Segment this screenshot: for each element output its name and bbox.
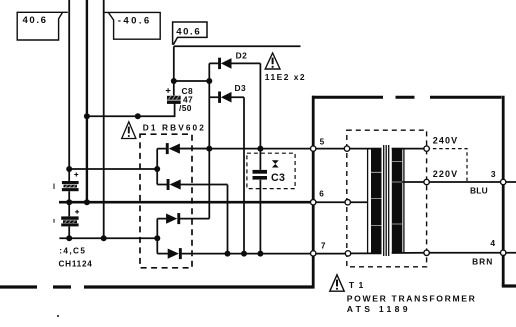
wire 240V stub [392,148,427,150]
wire pin4 output BRN [427,252,516,254]
svg-text::4,C5: :4,C5 [59,247,86,256]
wire pin6 stub [313,201,367,203]
svg-text:C3: C3 [271,172,285,184]
transformer T1 windings and core [368,145,404,256]
wire lower AC to bridge lower pair [59,237,157,239]
wire DC output to pin5 [180,148,347,150]
diode D3 [209,92,244,103]
wire D3 anode drop [243,97,245,253]
node junction dot [206,78,212,84]
wire DC output bottom to pin7 [182,253,348,255]
pin 5 terminal [344,146,349,151]
wire AC input to bridge top [69,168,157,170]
shield feedthrough pin4 [501,250,506,255]
wire AC input to bridge bottom (thick) [59,201,313,204]
wire secondary bottom stub [392,252,427,254]
node junction dot [225,251,231,257]
shield box top edge [312,96,502,99]
label C3 polarity glyph [272,160,279,167]
svg-text:6: 6 [319,190,324,199]
transformer T1 dashed box [347,130,427,267]
node junction dot [154,235,160,241]
node junction dot [241,251,247,257]
node junction dot [206,146,212,152]
wire pin5 stub [347,148,382,150]
shield box bottom-left dashed [0,285,315,288]
svg-text:CH1124: CH1124 [59,259,93,268]
bridge rectifier D1 dashed box [140,134,192,268]
svg-text:7: 7 [321,242,326,251]
node junction dot [66,199,72,205]
wire pin3 output BLU [427,181,516,183]
wire C8 bottom lead [87,103,175,116]
node junction dot [135,113,141,119]
svg-text:11E2 x2: 11E2 x2 [265,72,306,82]
svg-text:BRN: BRN [472,256,493,266]
wire 220V tap [402,181,426,183]
shield feedthrough pin7 [311,251,316,256]
wire vertical bus right [103,0,105,238]
diode D1c [157,213,209,224]
wire pin7 stub [348,252,382,254]
shield feedthrough pin6 [311,200,316,205]
node -40.6 voltage flag [105,12,161,39]
wire diode cathodes vertical [208,63,210,218]
pin 240V terminal [424,146,429,151]
shield box left edge [312,96,315,289]
wire diode B anode drop [227,185,229,254]
diode D1d [157,248,181,259]
warning triangle D1 [122,122,136,139]
svg-text:5: 5 [320,138,325,147]
shield feedthrough pin5 [311,146,316,151]
wire D2 anode drop [259,63,261,148]
node 40.6 voltage flag [17,12,68,40]
node junction dot [101,235,107,241]
diode D1a [157,143,209,154]
wire bridge upper-left vertical [156,149,158,185]
wire vertical bus middle [86,0,88,202]
wire 240V alternate dashed [427,149,467,182]
warning triangle T1 [330,275,344,291]
node junction dot [257,251,263,257]
node junction dot [84,199,90,205]
capacitor C3 [253,149,268,254]
svg-text:D1 RBV602: D1 RBV602 [143,122,206,132]
diode D1b [157,179,227,190]
capacitor C3 dashed box [247,153,295,188]
svg-text:POWER TRANSFORMER: POWER TRANSFORMER [347,293,477,303]
node junction dot [257,146,263,152]
svg-text:T 1: T 1 [349,280,364,290]
speck [57,315,59,317]
svg-text:220V: 220V [433,169,458,179]
node junction dot [66,235,72,241]
shield feedthrough pin3 [501,179,506,184]
pin 4 terminal [424,250,429,255]
svg-text:BLU: BLU [470,186,488,196]
diode D2 [209,58,260,69]
wire vertical bus left [68,0,70,169]
node junction dot [84,113,90,119]
svg-text:-40.6: -40.6 [118,15,152,26]
svg-text:4: 4 [490,238,495,248]
wire top horizontal from 40.6 flag [174,45,301,47]
svg-text:40.6: 40.6 [23,15,48,26]
node junction dot [66,166,72,172]
svg-text:D2: D2 [236,50,248,60]
node 40.6 voltage flag (rectifier input) [173,22,207,45]
pin 7 terminal [345,251,350,256]
shield box bottom-right stub [502,284,516,287]
node junction dot [154,166,160,172]
svg-text:D3: D3 [235,83,247,93]
wire vertical from 40.6 flag to C8 [173,46,175,95]
svg-text:ATS 1189: ATS 1189 [347,304,411,314]
wire y81 to diode junction [174,80,210,82]
pin 220V terminal [424,179,429,184]
wire bridge lower-left vertical [156,219,158,254]
svg-text:40.6: 40.6 [176,26,201,37]
capacitor C5 [54,202,79,238]
node junction dot [171,78,177,84]
capacitor C8 [166,88,181,104]
warning triangle 11E2 [265,53,280,69]
label C4,C5 CH1124 [59,247,93,269]
svg-text:240V: 240V [433,135,458,145]
svg-text:/50: /50 [179,103,192,113]
capacitor C4 [54,169,79,202]
label C8 value [179,86,193,113]
pin 6 terminal [345,200,350,205]
shield box right edge [502,96,505,286]
svg-text:3: 3 [491,169,496,179]
